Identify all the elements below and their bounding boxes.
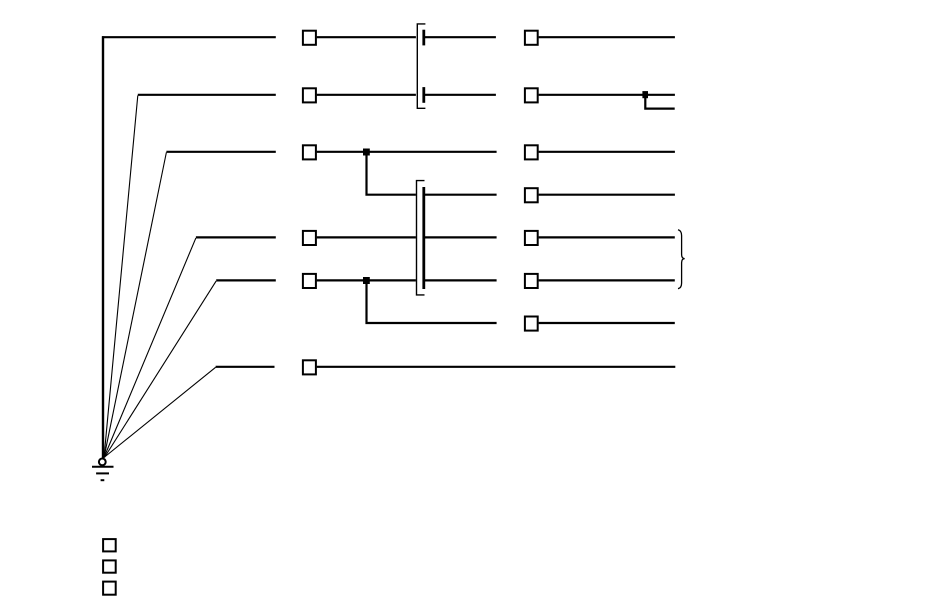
wire row6 square to right [317,366,676,368]
wire row2 diagonal to ground [104,95,138,457]
terminal square row1 right [525,31,538,45]
wire row4 connector J2 to right [425,236,497,238]
wire row3b connector J2 to right [425,194,497,196]
wire row5 connector J2 to right [425,279,497,281]
terminal square row5 right [525,274,538,288]
connector J1 [417,24,425,108]
wire row3b right column [539,194,675,196]
wire row2 left horizontal [138,94,276,96]
wire row3 left horizontal [166,151,275,153]
junction row5 [363,277,370,284]
wire row5 left horizontal [216,279,276,281]
wire row5 junction drop [367,280,497,323]
terminal square row1 left [303,31,316,45]
wire row6 left horizontal [216,366,275,368]
terminal square row4 left [303,231,316,245]
wire row1 square to connector J1 [317,36,416,38]
wire row1 left horizontal [102,36,276,38]
brace rows4-5 [678,230,685,289]
wire row2 right column [539,94,675,96]
wire vertical ground bus [102,36,104,458]
terminal square row3 left [303,145,316,159]
junction row3 [363,149,370,156]
terminal square row3 right [525,145,538,159]
wire row1 connector J1 to right [425,36,496,38]
wire row5b right column [539,322,675,324]
terminal square bottom2 [103,560,116,572]
terminal square row2 left [303,88,316,102]
junction row2 right [642,91,648,98]
ground [92,459,114,481]
wire row2 right branch [645,95,674,109]
wire row1 right column [539,36,675,38]
wire row5 right column [539,279,675,281]
terminal square bottom3 [103,582,116,595]
wire row4 left horizontal [196,236,276,238]
terminal square bottom1 [103,539,116,551]
terminal square row5b right [525,317,538,331]
wire row4 square to connector J2 [317,236,416,238]
terminal square row2 right [525,88,538,102]
wire row4 right column [539,236,675,238]
wire row3 junction drop [367,152,416,195]
wire row5 diagonal to ground [104,281,216,458]
terminal square row3b right [525,188,538,202]
connector J2 [417,181,425,295]
terminal square row4 right [525,231,538,245]
wire row2 connector J1 to right [425,94,496,96]
wire row3 right column [539,151,675,153]
wire row3 diagonal to ground [104,152,166,457]
wire row2 square to connector J1 [317,94,416,96]
wire row3 square to right [317,151,497,153]
wire row5 square to connector J2 [317,279,416,281]
wire row4 diagonal to ground [104,238,196,458]
terminal square row5 left [303,274,316,288]
wire row6 diagonal to ground [104,367,216,457]
terminal square row6 left [303,360,316,374]
